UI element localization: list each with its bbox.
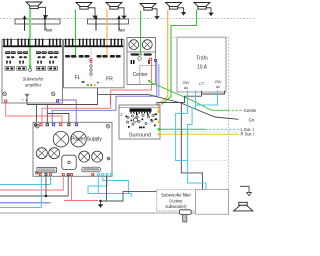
- pad red out: [5, 100, 7, 102]
- terminal V- in2: [75, 124, 77, 126]
- filter cap: [49, 148, 60, 159]
- ground: [240, 186, 249, 192]
- toroid: [142, 40, 152, 50]
- surround-right speaker: [194, 3, 210, 7]
- ground: [206, 8, 211, 11]
- heatsink: [3, 45, 62, 47]
- filter cap: [53, 131, 69, 147]
- transistors row: [6, 61, 8, 64]
- wire cyan right pin: [196, 91, 218, 106]
- node O: [29, 68, 32, 71]
- connector strip: [82, 167, 101, 172]
- pad green in: [87, 84, 89, 86]
- connector strip: [37, 168, 57, 173]
- wire FR orange: [106, 10, 108, 57]
- phono plug: [179, 210, 191, 215]
- pad yellow: [158, 133, 160, 135]
- wire blue left: [0, 202, 51, 204]
- capacitor: [144, 53, 152, 55]
- transformer enclosure dashed: [171, 37, 229, 214]
- terminal V- in: [53, 124, 55, 126]
- wire blue center: [52, 62, 157, 124]
- screw: [107, 157, 110, 160]
- wire cyan left2: [0, 176, 41, 208]
- svg-text:Gn: Gn: [249, 117, 255, 122]
- wire black down to subwoofer cabinet: [181, 103, 202, 190]
- terminal earth: [34, 123, 37, 126]
- misc parts: [82, 81, 85, 82]
- transformer Trafo 10A: [177, 37, 226, 92]
- wire black trafo CT: [157, 91, 202, 105]
- capacitors row1: [5, 51, 10, 54]
- screw: [51, 92, 55, 96]
- airflow arrow: [44, 17, 46, 31]
- svg-text:subwoofer): subwoofer): [165, 204, 187, 209]
- wire green L-sur input: [160, 128, 205, 130]
- wire red2: [71, 176, 73, 201]
- svg-text:fan: fan: [119, 28, 126, 33]
- svg-text:10 A: 10 A: [197, 65, 208, 71]
- pad blue out: [56, 100, 58, 102]
- svg-text:Subwoofer filter: Subwoofer filter: [161, 193, 191, 198]
- svg-text:Centre: Centre: [244, 108, 256, 113]
- wire red left: [0, 176, 63, 190]
- surround-left speaker: [166, 3, 182, 7]
- pad orange: [158, 111, 160, 113]
- pad yellow mid: [158, 121, 160, 123]
- capacitors row2: [7, 56, 10, 58]
- toroid: [129, 40, 139, 50]
- ground: [100, 202, 102, 205]
- filter cap: [92, 151, 103, 162]
- wire black trafo right pin: [202, 91, 225, 94]
- front-right speaker: [106, 3, 122, 7]
- pad yellow in: [94, 84, 96, 86]
- terminal ac: [102, 174, 104, 176]
- wire black gnd diagonal: [148, 94, 239, 119]
- wire center green: [140, 11, 142, 55]
- small parts: [127, 116, 129, 118]
- wire yellow R-sur input: [160, 133, 239, 135]
- svg-text:R Sur. I: R Sur. I: [241, 132, 255, 137]
- node D: [138, 57, 142, 61]
- wire cyan ac left: [0, 176, 51, 185]
- screw: [36, 124, 40, 128]
- junction: [99, 200, 101, 202]
- fan plate left: [15, 19, 60, 24]
- capacitor: [131, 53, 139, 55]
- terminal gnd in2: [68, 124, 70, 126]
- wire subwoofer green: [29, 9, 31, 66]
- bridge rectifier: [62, 155, 76, 169]
- svg-text:Power Supply: Power Supply: [71, 137, 102, 143]
- ground: [118, 8, 124, 14]
- svg-text:CT: CT: [199, 81, 205, 86]
- front-left speaker: [76, 3, 92, 7]
- terminal out: [62, 174, 64, 176]
- heatsink: [64, 45, 123, 47]
- capacitors row: [65, 55, 70, 58]
- wire cyan 25vac pinB trunk: [188, 91, 206, 190]
- svg-text:Subwoofer: Subwoofer: [23, 77, 45, 82]
- terminal V+ in2: [60, 124, 62, 126]
- airflow arrow: [95, 17, 97, 31]
- filter cap: [71, 131, 87, 147]
- svg-text:(Active: (Active: [169, 198, 183, 203]
- wire blue stub: [158, 64, 160, 96]
- svg-text:FL: FL: [75, 75, 81, 81]
- dashed guide line: [188, 159, 229, 161]
- terminal V+ in: [40, 124, 42, 126]
- wire surround-right green: [162, 10, 197, 105]
- wire red center: [42, 61, 152, 124]
- terminal out: [67, 174, 69, 176]
- dashed guide line: [160, 131, 240, 133]
- wire black bus: [0, 195, 68, 197]
- ground: [38, 7, 45, 13]
- screw: [35, 171, 38, 174]
- subwoofer filter box: [157, 190, 196, 211]
- svg-text:FR: FR: [106, 77, 113, 83]
- wire black FLFR gnd: [27, 88, 98, 105]
- subwoofer amplifier board: [2, 40, 63, 104]
- screw: [3, 92, 7, 96]
- filter cap: [79, 151, 90, 162]
- transistor: [148, 60, 150, 64]
- center amplifier board: [127, 38, 155, 85]
- airflow arrow: [24, 17, 26, 31]
- FL-FR amplifier board: [64, 40, 125, 88]
- terminal blocks: [5, 67, 14, 71]
- ground: [88, 8, 95, 14]
- pad green out: [148, 80, 150, 82]
- wire cyan 25vac pinA: [176, 91, 188, 161]
- wire black to surround: [98, 93, 149, 95]
- filter cap: [36, 148, 47, 159]
- svg-text:fan: fan: [46, 28, 53, 33]
- terminal out: [71, 174, 73, 176]
- pad blue: [155, 59, 157, 61]
- chassis dashed line: [0, 18, 256, 20]
- svg-text:ac: ac: [184, 85, 188, 90]
- baseline: [0, 212, 196, 214]
- wire red sub V+: [6, 102, 62, 123]
- svg-text:Surround: Surround: [129, 133, 151, 139]
- wire blue sub V-: [59, 100, 76, 124]
- wire green centre input: [149, 82, 228, 111]
- terminal ac: [97, 174, 99, 176]
- svg-text:ac: ac: [216, 84, 220, 89]
- wire black gnd down: [101, 176, 107, 201]
- inner bracket: [140, 65, 156, 84]
- screw: [106, 124, 110, 128]
- ground: [152, 9, 157, 14]
- airflow arrow: [118, 17, 120, 31]
- wire cyan A: [97, 176, 99, 194]
- power supply board: [33, 122, 112, 176]
- ground: [178, 8, 184, 10]
- active subwoofer cabinet: [196, 190, 229, 215]
- surround amplifier board: [119, 105, 160, 139]
- junction: [45, 195, 47, 197]
- svg-text:Trafo: Trafo: [196, 55, 208, 61]
- terminal ac: [110, 174, 112, 176]
- subwoofer speaker: [26, 2, 42, 6]
- wire FL green: [75, 10, 77, 57]
- transistor: [131, 60, 133, 64]
- terminal gnd in: [46, 124, 48, 126]
- center speaker: [140, 4, 156, 8]
- input arrow: [90, 83, 92, 85]
- pad green: [158, 128, 160, 130]
- wire black sub gnd: [26, 97, 28, 105]
- ground lug: [25, 93, 30, 95]
- heatsink: [130, 108, 152, 111]
- subwoofer driver speaker: [239, 202, 247, 205]
- svg-text:amplifier: amplifier: [25, 83, 42, 88]
- preamp column: [90, 49, 92, 81]
- terminal out: [92, 174, 94, 176]
- wire cyan C: [88, 176, 107, 194]
- wire cyan B: [103, 176, 129, 194]
- toroid section: [127, 38, 155, 52]
- fan plate right: [88, 19, 129, 24]
- terminal ac: [106, 174, 108, 176]
- terminal out: [39, 174, 41, 176]
- pad red: [149, 58, 151, 60]
- node subwoofer out: [29, 65, 31, 67]
- svg-text:Center: Center: [133, 72, 148, 78]
- terminal out: [50, 174, 52, 176]
- wire surround-left orange: [159, 10, 168, 112]
- terminal out: [45, 174, 47, 176]
